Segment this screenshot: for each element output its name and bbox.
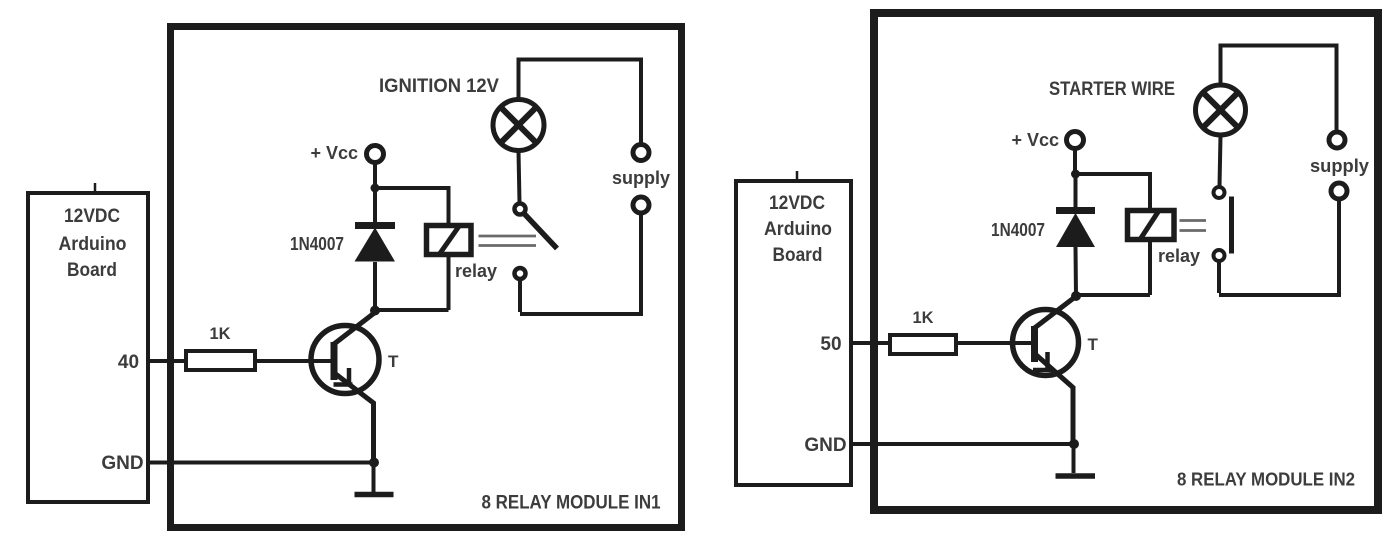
svg-text:1N4007: 1N4007 [991, 220, 1045, 240]
svg-text:relay: relay [455, 261, 497, 281]
svg-text:T: T [388, 352, 399, 371]
svg-text:Arduino: Arduino [59, 234, 127, 255]
svg-text:8 RELAY MODULE IN1: 8 RELAY MODULE IN1 [482, 493, 661, 514]
svg-text:8 RELAY MODULE IN2: 8 RELAY MODULE IN2 [1177, 469, 1355, 490]
svg-text:T: T [1088, 335, 1099, 354]
svg-text:1N4007: 1N4007 [290, 234, 344, 254]
svg-text:STARTER WIRE: STARTER WIRE [1049, 79, 1175, 100]
svg-text:+ Vcc: + Vcc [1011, 130, 1059, 150]
svg-text:12VDC: 12VDC [64, 206, 120, 227]
svg-text:+ Vcc: + Vcc [310, 143, 358, 163]
svg-text:Arduino: Arduino [764, 219, 832, 240]
svg-text:Board: Board [773, 245, 823, 266]
svg-text:Board: Board [67, 260, 117, 281]
svg-text:12VDC: 12VDC [769, 193, 825, 214]
svg-text:GND: GND [804, 435, 846, 456]
svg-text:50: 50 [820, 334, 841, 355]
svg-text:supply: supply [612, 168, 670, 188]
svg-text:1K: 1K [210, 324, 232, 343]
svg-text:GND: GND [101, 453, 143, 474]
svg-text:40: 40 [118, 352, 139, 373]
svg-text:supply: supply [1310, 156, 1369, 176]
svg-text:1K: 1K [913, 308, 935, 327]
svg-text:relay: relay [1158, 246, 1200, 266]
svg-text:IGNITION 12V: IGNITION 12V [379, 76, 499, 97]
